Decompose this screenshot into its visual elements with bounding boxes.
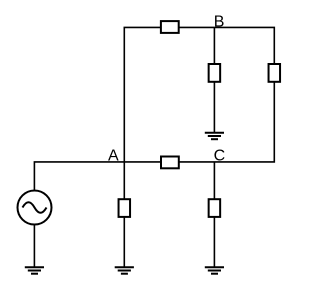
svg-text:B: B (214, 13, 225, 30)
wire C branch lower (213, 217, 215, 267)
svg-text:C: C (214, 148, 226, 165)
ground (node A branch) (115, 267, 134, 273)
wire top-left corner + left vertical through node A (124, 27, 161, 199)
wire C branch upper (213, 162, 215, 199)
resistor R2 (node B branch) (209, 64, 221, 82)
ground (node B branch) (205, 133, 224, 139)
AC source V1 circle (18, 191, 52, 225)
wire A branch lower (123, 217, 125, 267)
resistor R1 (top horizontal) (161, 21, 179, 33)
resistor R4 (middle horizontal) (161, 157, 179, 169)
ground (node C branch) (205, 267, 224, 273)
resistor R6 (node C branch) (209, 199, 221, 217)
svg-text:A: A (108, 148, 119, 165)
wire B branch upper (213, 27, 215, 64)
wire middle rail left segment + source top lead (34, 162, 161, 191)
resistor R5 (node A branch) (119, 199, 131, 217)
ground (source) (25, 267, 44, 273)
wire B branch lower (213, 82, 215, 133)
wire source bottom lead (33, 225, 35, 267)
resistor R3 (right branch) (269, 64, 281, 82)
wire top rail right segment + right vertical upper (179, 27, 275, 64)
wire right vertical lower + middle rail right segment (179, 82, 274, 162)
AC source sine mark (23, 202, 47, 213)
